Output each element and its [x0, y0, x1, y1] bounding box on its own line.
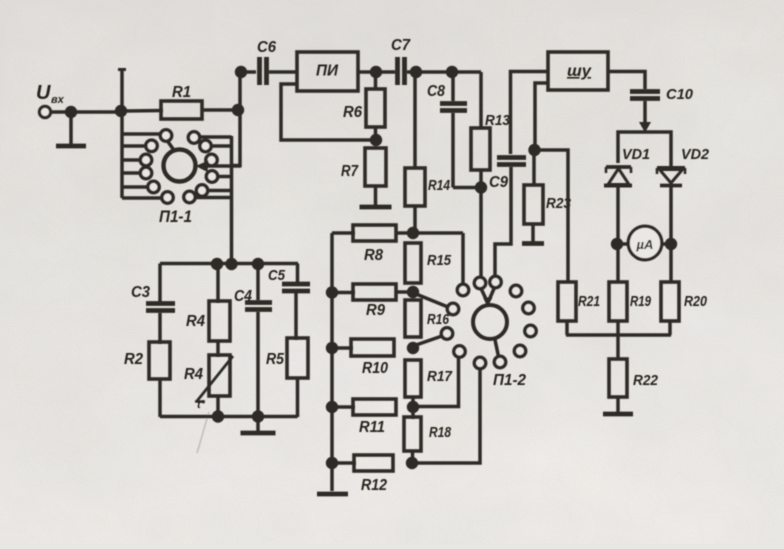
resistor R22 [609, 359, 659, 397]
svg-text:R18: R18 [429, 424, 452, 441]
wire node C up [238, 72, 242, 110]
svg-text:R2: R2 [124, 351, 143, 368]
P1-2 contact NE1 [510, 285, 521, 296]
P1-1 right outer bracket [233, 113, 241, 166]
capacitor C8 [427, 83, 467, 111]
svg-text:R11: R11 [359, 419, 385, 436]
P1-2 contact from C9 [490, 276, 501, 287]
wire R17 to R18 [411, 397, 415, 419]
P1-1 right inner bracket [230, 136, 234, 263]
capacitor C5 [268, 267, 310, 291]
P1-1 right rail 3 [206, 171, 231, 182]
wire R4 to R4 [216, 341, 220, 357]
node G junction [446, 66, 458, 78]
node X junction [406, 457, 418, 469]
node R junction [407, 286, 419, 298]
wire VD1 to meter [616, 186, 620, 241]
wire thermistor down [216, 396, 220, 413]
amplifier block PI [297, 52, 358, 91]
resistor R1 [161, 84, 202, 119]
wire R18 down [411, 451, 415, 463]
node P junction [407, 227, 419, 239]
capacitor C7 [391, 37, 411, 85]
node L junction [225, 258, 237, 270]
wire down to R13 [479, 72, 483, 128]
wire node D to C6 [241, 70, 256, 74]
P1-2 wiper contact S [494, 338, 505, 368]
meter left junction [611, 238, 628, 250]
common wire top [160, 262, 298, 266]
wire C3 to R2 [158, 313, 162, 344]
wire PI to node E [358, 70, 395, 74]
capacitor C9 [489, 158, 526, 192]
resistor R6 [343, 89, 385, 127]
wire node X to contact [412, 357, 486, 463]
svg-text:R4: R4 [184, 366, 203, 383]
input terminal Uvx [36, 82, 65, 118]
P1-1 right rail 1 [188, 132, 231, 143]
wire SHU to C10 [608, 72, 645, 90]
svg-text:шу: шу [567, 63, 592, 80]
svg-text:VD2: VD2 [681, 146, 710, 163]
svg-text:VD1: VD1 [622, 146, 650, 163]
ladder left rail [330, 233, 334, 491]
wire C4 down [256, 312, 260, 413]
P1-1 left rail 3 [122, 154, 152, 165]
label P1-1 [159, 207, 192, 226]
wire R14 to ladder [413, 206, 417, 230]
P1-1 bottom rail [122, 192, 173, 203]
resistor R23 [524, 185, 572, 224]
ground below R22 [603, 397, 633, 414]
bottom common wire [160, 415, 298, 419]
resistor R9 [332, 284, 413, 319]
node V junction [407, 401, 419, 413]
wire VD2 to meter [669, 186, 673, 240]
label P1-2 [493, 372, 526, 389]
P1-1 left rail 1 [122, 130, 172, 141]
svg-text:R10: R10 [362, 360, 388, 377]
wire meter to R19 [616, 244, 620, 282]
svg-text:П1-1: П1-1 [159, 207, 192, 226]
node N junction [212, 410, 224, 422]
resistor R14 [405, 168, 451, 206]
svg-text:t°: t° [197, 399, 206, 411]
wire R5 down [296, 378, 300, 417]
ground at input [56, 116, 86, 146]
svg-text:R6: R6 [343, 104, 362, 121]
wire node R to contact [416, 294, 459, 315]
wire bus to R22 [616, 335, 620, 359]
node T junction [407, 342, 419, 354]
diode bracket [618, 132, 671, 166]
P1-1 right rail 2 [200, 140, 232, 151]
meter uA [628, 226, 662, 260]
arrow into diode bracket [639, 122, 651, 133]
svg-text:R16: R16 [427, 311, 450, 328]
P1-1 rotor [164, 150, 196, 182]
svg-text:R7: R7 [341, 163, 359, 180]
resistor R18 [404, 417, 452, 451]
svg-text:С10: С10 [666, 86, 694, 103]
node Q junction [326, 286, 338, 298]
diode VD2 [657, 146, 710, 186]
wire C7 to R13 corner [407, 70, 481, 74]
wire node G down to C8 [451, 72, 455, 101]
wire node V to contact [413, 346, 465, 407]
wire node J to R23 [532, 150, 536, 185]
node A junction [65, 106, 77, 118]
switch P1-1 left bracket [120, 112, 124, 198]
amplifier block SHU [548, 52, 608, 90]
P1-2 contact E [525, 325, 536, 336]
wire C9 to switch contact [495, 167, 511, 276]
resistor R10 [332, 339, 394, 377]
wire SHU to C9 [511, 72, 549, 155]
svg-text:вх: вх [51, 94, 65, 106]
P1-1 left rail 4 [122, 167, 152, 178]
wire R1 to node C [202, 108, 236, 112]
ground below R7 [360, 186, 392, 207]
diode VD1 [604, 146, 650, 186]
svg-text:R9: R9 [366, 302, 385, 319]
node S junction [326, 342, 338, 354]
wire C10 down [643, 101, 647, 124]
svg-text:R5: R5 [266, 351, 285, 368]
resistor R4 upper [186, 301, 230, 341]
wire node J to R21 [534, 150, 568, 282]
wire C5 to R5 [294, 293, 298, 340]
svg-text:R22: R22 [633, 372, 659, 389]
svg-text:R14: R14 [428, 177, 451, 194]
wire node E to R6 [374, 72, 378, 89]
resistor R21 [558, 282, 600, 321]
thermistor R4 lower [184, 355, 233, 411]
P1-2 wiper arrow [481, 288, 495, 308]
svg-text:ПИ: ПИ [316, 63, 339, 80]
P1-1 right rail 5 [184, 191, 232, 202]
node H junction [370, 134, 382, 146]
svg-text:С7: С7 [391, 37, 411, 54]
open stub above node B [118, 69, 126, 108]
node I junction [475, 181, 487, 193]
faint scratch mark [197, 412, 209, 453]
node M junction [252, 258, 264, 270]
P1-2 contact NE2 [523, 302, 534, 313]
svg-text:R4: R4 [186, 313, 205, 330]
P1-2 contact SE [514, 345, 525, 356]
wire C6 to PI [269, 70, 297, 74]
wire node M to C4 [256, 264, 260, 300]
resistor R17 [405, 360, 453, 397]
wire node B to R1 [121, 109, 163, 113]
resistor R7 [341, 148, 386, 186]
resistor R8 [332, 225, 463, 264]
svg-text:R12: R12 [361, 477, 387, 494]
wire R8 row to contact [457, 233, 468, 296]
wire common to C5 [296, 264, 300, 283]
P1-1 left rail 2 [122, 140, 157, 151]
resistor R12 [332, 455, 393, 494]
svg-text:С9: С9 [489, 174, 508, 191]
resistor R16 [405, 300, 450, 337]
node J junction [528, 144, 540, 156]
wire SHU to R23 [535, 83, 548, 150]
svg-text:R17: R17 [427, 368, 453, 385]
svg-text:R15: R15 [427, 252, 452, 269]
resistor R20 [661, 282, 708, 321]
svg-text:R13: R13 [485, 112, 511, 129]
svg-text:С5: С5 [268, 267, 286, 284]
wire R13 to switch contact [479, 170, 483, 277]
resistor R15 [405, 243, 452, 283]
node U junction [326, 401, 338, 413]
wire node K to R4 [216, 264, 220, 303]
P1-1 right rail 4 [196, 185, 231, 196]
wire C8 down [453, 113, 476, 188]
resistor R5 [266, 338, 308, 378]
svg-text:С4: С4 [234, 288, 252, 305]
svg-text:R1: R1 [172, 84, 191, 101]
node W junction [326, 457, 338, 469]
ground below node O [241, 419, 276, 433]
P1-2 rotor [473, 305, 507, 339]
resistor R11 [332, 399, 396, 436]
P1-1 wiper lead top [168, 141, 175, 151]
meter right junction [663, 238, 678, 250]
node C junction [232, 104, 244, 116]
wire node F down to R14 [413, 72, 417, 168]
capacitor C10 [630, 86, 694, 103]
svg-text:R8: R8 [364, 247, 383, 264]
resistor R19 [609, 282, 651, 321]
capacitor C3 [131, 284, 175, 311]
capacitor C4 [234, 288, 272, 310]
node K junction [211, 258, 223, 270]
svg-text:R21: R21 [578, 293, 600, 310]
P1-1 left rail 5 [122, 181, 159, 192]
P1-1 wiper contact [206, 154, 217, 165]
svg-text:С3: С3 [131, 284, 150, 301]
feedback wire PI to R7 node [281, 84, 372, 140]
svg-text:µА: µА [636, 237, 654, 252]
resistor R2 [124, 342, 170, 379]
svg-text:С8: С8 [427, 83, 445, 100]
wire meter to R20 [669, 244, 673, 282]
P1-1 wiper arrow [196, 161, 242, 173]
ground below ladder rail [317, 492, 348, 497]
bus below R19 R20 R21 [566, 321, 671, 335]
node B junction [115, 105, 127, 117]
node O junction [252, 410, 264, 422]
svg-text:R19: R19 [630, 293, 651, 310]
wire input to node A [51, 110, 117, 114]
capacitor C6 [257, 39, 276, 85]
svg-text:С6: С6 [257, 39, 276, 56]
svg-text:П1-2: П1-2 [493, 372, 526, 389]
P1-2 contact from R13 [474, 277, 485, 288]
resistor R13 [471, 112, 511, 170]
wire node T to contact [416, 328, 453, 345]
wire to C3 [158, 264, 162, 303]
ground below R23 [522, 224, 544, 244]
svg-text:R20: R20 [684, 293, 708, 310]
node D junction [235, 66, 247, 78]
wire R6 to node H [374, 127, 378, 146]
wire R2 down [158, 379, 162, 417]
svg-text:U: U [36, 82, 51, 104]
node F junction [410, 66, 422, 78]
node E junction [370, 66, 382, 78]
